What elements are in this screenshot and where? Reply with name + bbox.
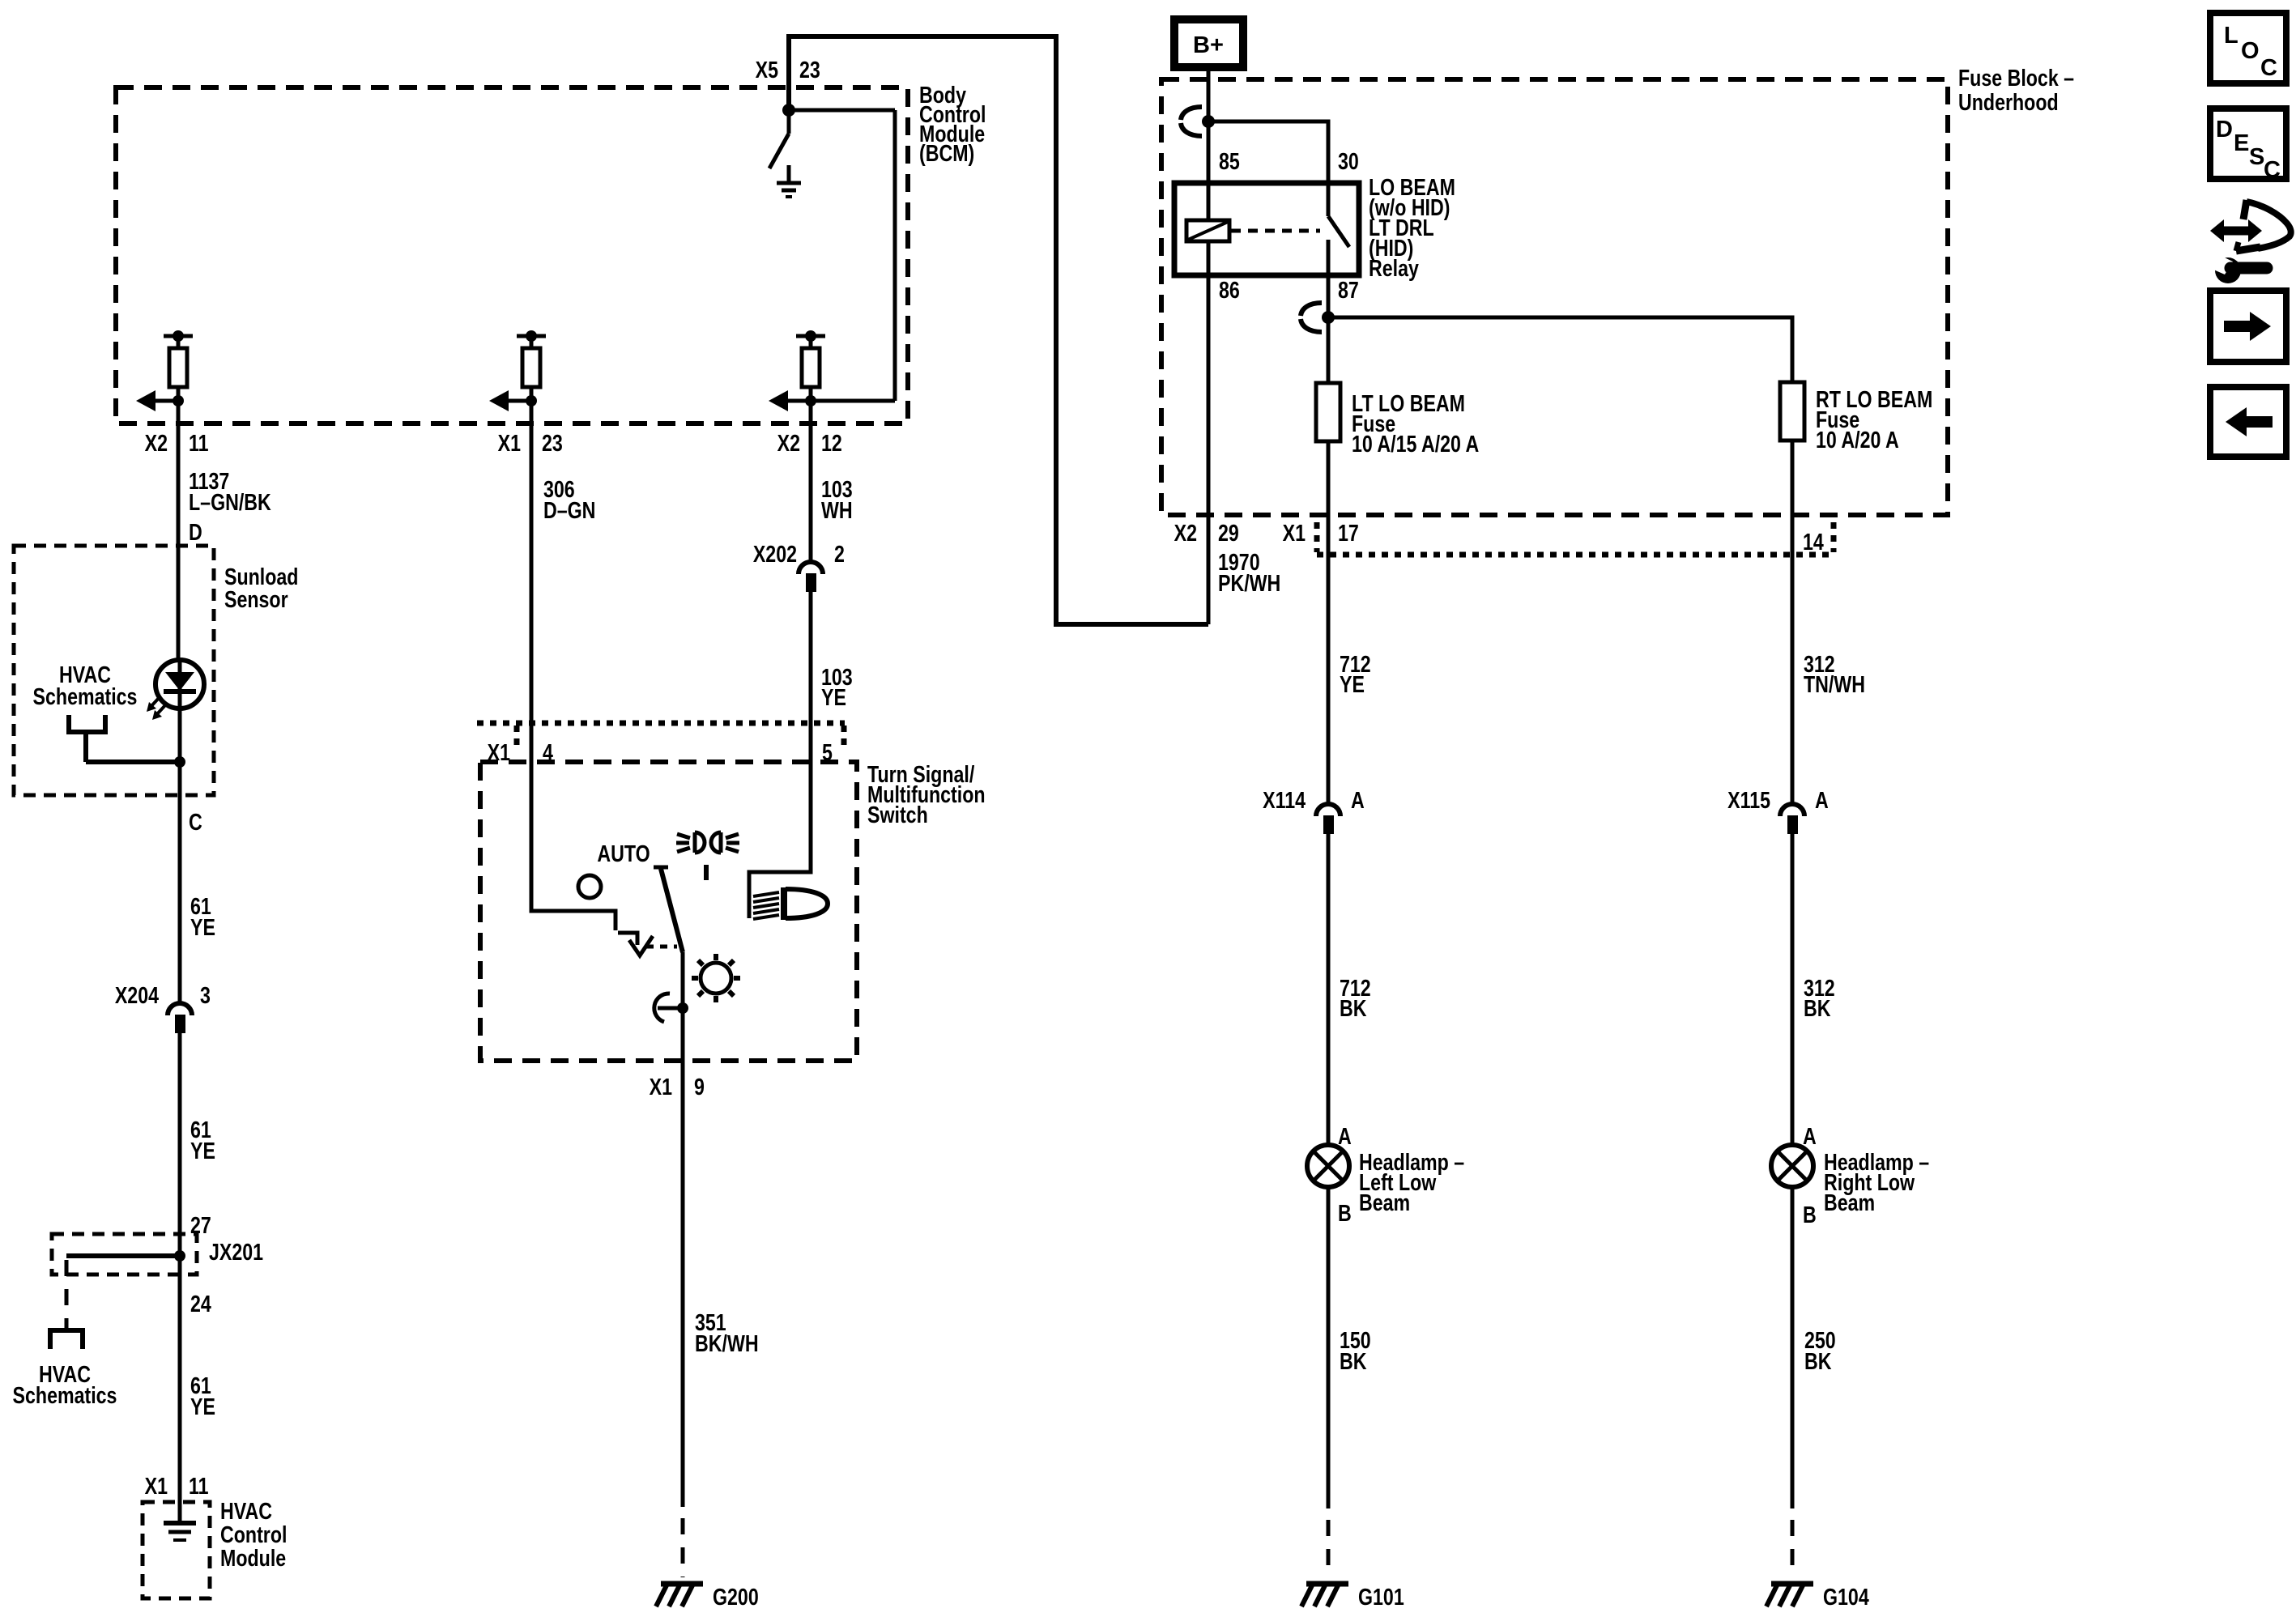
label Body Control Module (BCM) — [919, 81, 986, 166]
wiper grip symbol — [654, 994, 683, 1022]
svg-text:C: C — [2260, 55, 2277, 81]
wire 712 YE — [1327, 555, 1331, 803]
svg-text:WH: WH — [821, 496, 853, 523]
label Headlamp Right Low Beam — [1824, 1148, 1929, 1215]
wire 61 YE lower — [178, 1256, 182, 1502]
wire 712 BK — [1327, 834, 1331, 1145]
wire dashed to G200 — [681, 1518, 685, 1577]
wire relay 86 to BCM (1970 PK/WH) — [1207, 280, 1211, 624]
wire JX201 branch — [66, 1253, 180, 1258]
svg-text:24: 24 — [190, 1290, 211, 1317]
svg-text:Schematics: Schematics — [13, 1381, 117, 1408]
icon forward arrow box — [2210, 291, 2286, 362]
svg-text:11: 11 — [189, 1472, 209, 1499]
position tick mark — [704, 865, 709, 880]
svg-text:TN/WH: TN/WH — [1804, 670, 1865, 697]
wire 103 WH — [809, 423, 813, 560]
svg-text:O: O — [2241, 38, 2260, 64]
svg-text:BK/WH: BK/WH — [695, 1330, 759, 1356]
light arrows into photodiode — [147, 697, 165, 720]
wire 87 node to RT fuse — [1328, 317, 1792, 382]
relay contact switch — [1328, 183, 1349, 280]
wire 103 YE — [809, 592, 813, 762]
splice clip at 87 node — [1301, 303, 1322, 332]
wire B+ node to pin 30 — [1208, 121, 1328, 183]
svg-text:AUTO: AUTO — [597, 840, 650, 866]
svg-text:B+: B+ — [1193, 32, 1224, 58]
svg-text:X2: X2 — [1174, 519, 1197, 546]
switch S1 BCM internal driver — [769, 110, 789, 168]
svg-text:X1: X1 — [498, 429, 521, 456]
connector X114 pin A — [1263, 786, 1365, 834]
label RT LO BEAM fuse — [1816, 385, 1932, 453]
svg-text:30: 30 — [1338, 147, 1359, 174]
Fuse Block - Underhood dashed box — [1161, 79, 1948, 515]
resistor BCM output branch 3 — [769, 330, 895, 423]
svg-text:Sensor: Sensor — [224, 585, 288, 612]
Body Control Module (BCM) dashed box — [116, 87, 908, 423]
icon back arrow box — [2210, 387, 2286, 457]
svg-text:D–GN: D–GN — [543, 496, 595, 523]
Sunload Sensor dashed box — [14, 546, 214, 795]
fuse LT LO BEAM — [1316, 383, 1340, 441]
svg-text:Underhood: Underhood — [1958, 88, 2059, 115]
wire right vertical run — [1054, 34, 1059, 627]
svg-text:87: 87 — [1338, 276, 1359, 303]
wire relay 87 down to node — [1327, 280, 1331, 383]
svg-text:YE: YE — [821, 683, 846, 710]
svg-text:Fuse Block –: Fuse Block – — [1958, 64, 2074, 91]
icon DESC box — [2210, 109, 2286, 183]
wire 312 TN/WH — [1791, 555, 1795, 803]
svg-text:X202: X202 — [753, 540, 797, 567]
B+ power feed box — [1174, 19, 1243, 67]
wire 250 BK — [1791, 1187, 1795, 1508]
svg-text:29: 29 — [1218, 519, 1239, 546]
svg-text:B: B — [1338, 1199, 1352, 1226]
svg-text:X1: X1 — [650, 1073, 672, 1100]
svg-text:B: B — [1803, 1201, 1817, 1228]
relay coil — [1186, 183, 1229, 280]
svg-text:3: 3 — [200, 981, 211, 1008]
svg-text:A: A — [1351, 786, 1365, 813]
node junction wiper output — [677, 1002, 688, 1014]
svg-text:L–GN/BK: L–GN/BK — [189, 488, 271, 515]
svg-text:G200: G200 — [713, 1583, 759, 1610]
wire 61 YE middle — [178, 1033, 182, 1256]
wire dashed to G104 — [1791, 1520, 1795, 1577]
node junction at X5-23 — [782, 104, 795, 117]
label Headlamp Left Low Beam — [1359, 1148, 1464, 1215]
svg-text:Beam: Beam — [1824, 1189, 1875, 1215]
ground G101 — [1301, 1584, 1348, 1606]
contact OFF position circle — [578, 875, 601, 898]
svg-text:JX201: JX201 — [209, 1238, 263, 1265]
wire B+ to relay pin 85 — [1207, 67, 1211, 183]
svg-text:Schematics: Schematics — [33, 683, 138, 709]
wire dashed to G101 — [1327, 1520, 1331, 1577]
svg-text:A: A — [1815, 786, 1829, 813]
node junction JX201 — [174, 1250, 185, 1262]
photodiode sunload sensor — [155, 660, 204, 762]
lamp Headlamp Right Low Beam — [1771, 1145, 1813, 1187]
lamp switch knob icon (gear) — [692, 954, 740, 1002]
svg-text:10 A/20 A: 10 A/20 A — [1816, 426, 1899, 453]
svg-text:PK/WH: PK/WH — [1218, 569, 1280, 596]
svg-text:86: 86 — [1219, 276, 1240, 303]
svg-text:X2: X2 — [145, 429, 168, 456]
icon LOC box — [2210, 13, 2286, 83]
wire BCM internal vertical — [893, 110, 897, 401]
icon adjust (hand with double arrow and wrench) — [2206, 200, 2291, 283]
svg-text:10 A/15 A/20 A: 10 A/15 A/20 A — [1352, 430, 1479, 457]
svg-text:BK: BK — [1804, 994, 1831, 1021]
label LO BEAM relay — [1369, 173, 1455, 281]
resistor BCM output branch 2 — [489, 330, 546, 423]
wire 351 BK/WH — [681, 1061, 685, 1507]
svg-text:X1: X1 — [1283, 519, 1306, 546]
headlamp icon — [753, 887, 828, 920]
ground internal HVAC control module — [164, 1502, 196, 1540]
switch contact step — [618, 933, 653, 955]
label LT LO BEAM fuse — [1352, 389, 1479, 457]
svg-text:Relay: Relay — [1369, 254, 1419, 281]
wire 312 BK — [1791, 834, 1795, 1145]
wire X5-23 external: up, right, down to node at 1970 wire — [786, 36, 791, 110]
fuse RT LO BEAM — [1780, 382, 1804, 440]
svg-text:YE: YE — [190, 1137, 215, 1164]
svg-text:YE: YE — [190, 913, 215, 940]
svg-text:YE: YE — [1340, 670, 1365, 697]
svg-text:Module: Module — [220, 1544, 286, 1571]
wire top horizontal run — [786, 34, 1059, 39]
junction block JX201 dashed box — [52, 1234, 197, 1274]
node junction B+ feed — [1202, 115, 1215, 128]
switch wiper arm — [654, 867, 683, 952]
wire LT fuse to X1-17 — [1327, 441, 1331, 563]
svg-text:D: D — [189, 518, 202, 545]
svg-text:2: 2 — [834, 540, 845, 567]
svg-text:L: L — [2224, 23, 2238, 49]
svg-text:C: C — [189, 808, 202, 835]
wire dashed to HVAC schematics — [65, 1260, 69, 1330]
wire BCM internal horizontal — [789, 109, 895, 113]
connector face dotted line X1 (switch) — [477, 723, 845, 751]
svg-text:S: S — [2249, 144, 2264, 170]
svg-text:14: 14 — [1803, 528, 1824, 555]
svg-text:23: 23 — [542, 429, 563, 456]
node junction in sunload sensor — [174, 756, 185, 768]
svg-text:9: 9 — [694, 1073, 705, 1100]
wiper link dashes — [646, 945, 677, 949]
svg-text:BK: BK — [1340, 1347, 1367, 1374]
svg-text:X114: X114 — [1263, 786, 1306, 813]
off-page connector fork (lower HVAC) — [48, 1330, 85, 1349]
connector X204 pin 3 — [115, 981, 211, 1033]
svg-text:A: A — [1338, 1122, 1352, 1149]
wire RT fuse down — [1791, 440, 1795, 563]
svg-text:YE: YE — [190, 1393, 215, 1419]
wire wiper to pin 9 — [681, 952, 685, 1061]
parking lamps icon — [676, 832, 739, 853]
splice clip at B+ node — [1181, 107, 1202, 136]
svg-text:A: A — [1803, 1122, 1817, 1149]
wire 61 YE upper — [178, 762, 182, 1002]
svg-text:G104: G104 — [1823, 1583, 1869, 1610]
svg-text:X115: X115 — [1727, 786, 1770, 813]
svg-text:11: 11 — [189, 429, 209, 456]
connector face dotted line X1 (fuse block) — [1317, 522, 1834, 555]
off-page connector fork (sunload HVAC) — [66, 715, 180, 762]
svg-text:BK: BK — [1340, 994, 1367, 1021]
svg-text:17: 17 — [1338, 519, 1359, 546]
ground BCM internal — [777, 165, 801, 197]
svg-text:85: 85 — [1219, 147, 1240, 174]
svg-text:C: C — [2264, 157, 2281, 183]
connector X115 pin A — [1727, 786, 1829, 834]
node junction relay 87 — [1322, 311, 1335, 324]
wire 306 D-GN — [530, 423, 534, 762]
svg-text:D: D — [2216, 117, 2233, 143]
svg-text:27: 27 — [190, 1211, 211, 1238]
svg-text:X5: X5 — [756, 56, 778, 83]
wire bottom horizontal to 1970 PK/WH wire — [1056, 622, 1208, 627]
ground G200 — [656, 1584, 703, 1606]
svg-text:G101: G101 — [1358, 1583, 1404, 1610]
resistor BCM output branch 1 (tee, resistor, arrow) — [136, 330, 193, 423]
lamp Headlamp Left Low Beam — [1307, 1145, 1349, 1187]
svg-text:(BCM): (BCM) — [919, 139, 974, 166]
svg-text:X2: X2 — [777, 429, 800, 456]
HVAC Control Module dashed box — [143, 1502, 210, 1598]
svg-text:Switch: Switch — [867, 801, 928, 828]
svg-text:X204: X204 — [115, 981, 160, 1008]
svg-text:12: 12 — [821, 429, 842, 456]
svg-text:BK: BK — [1804, 1347, 1832, 1374]
relay coil-contact dashed link — [1231, 229, 1320, 233]
relay LO BEAM / LT DRL box — [1174, 183, 1359, 275]
svg-text:E: E — [2234, 130, 2249, 156]
svg-text:Beam: Beam — [1359, 1189, 1410, 1215]
svg-text:23: 23 — [799, 56, 820, 83]
svg-text:X1: X1 — [145, 1472, 168, 1499]
ground G104 — [1766, 1584, 1813, 1606]
Turn Signal / Multifunction Switch dashed box — [480, 762, 857, 1061]
wire 150 BK — [1327, 1187, 1331, 1508]
connector X202 pin 2 — [753, 540, 845, 592]
wire switch AUTO contact — [531, 762, 616, 930]
wire switch headlamp contact — [749, 762, 811, 918]
wire 1137 L-GN/BK — [177, 423, 181, 659]
